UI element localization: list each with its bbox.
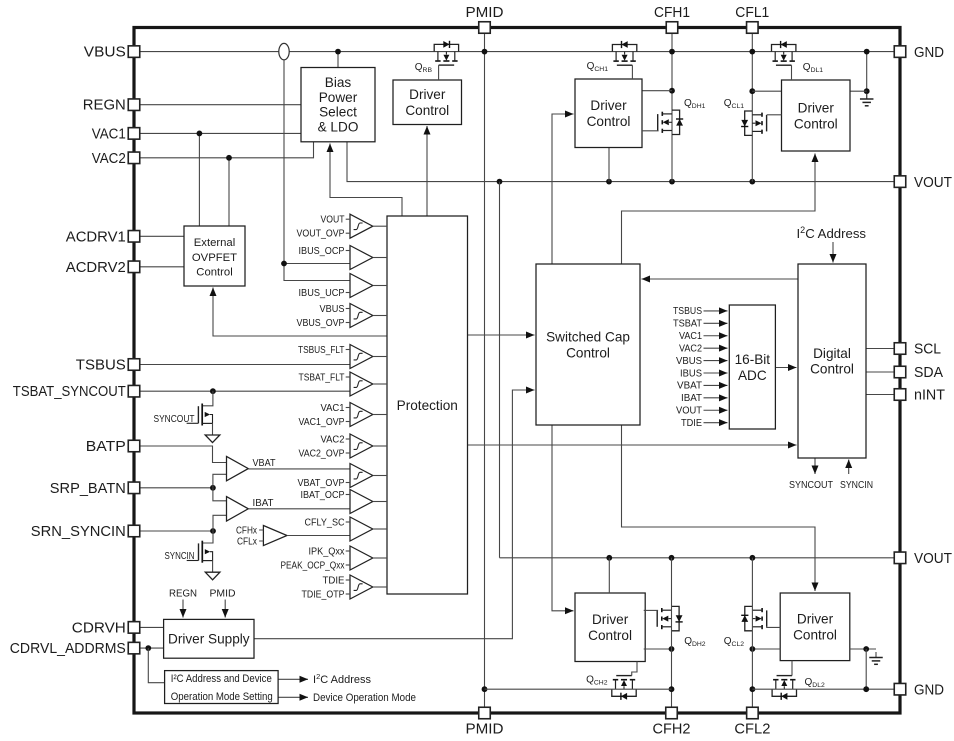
svg-text:IBUS_OCP: IBUS_OCP [299, 246, 345, 257]
junction VOUT rail2 / QCL2 [750, 555, 756, 561]
wire CFL1 line to driver control 1R left [752, 90, 781, 92]
svg-text:ACDRV1: ACDRV1 [66, 229, 126, 245]
comparator IBUS_OCP [350, 246, 373, 270]
wire driver control 1L bottom to VOUT rail [608, 148, 610, 182]
svg-text:ADC: ADC [738, 368, 767, 383]
svg-text:VAC2: VAC2 [92, 151, 126, 167]
junction VOUT rail2 / driver control 2L top [606, 555, 612, 561]
pin PMID top [479, 22, 491, 34]
comparator IBUS_UCP [350, 274, 373, 298]
pin VAC2 [128, 152, 140, 164]
wire Bias bottom to VOUT rail y182 [347, 142, 895, 182]
svg-text:VBUS_OVP: VBUS_OVP [297, 318, 345, 329]
pin VOUT right y557 [894, 552, 906, 564]
transistor QCL2 [745, 606, 753, 630]
junction GND bottom branch [863, 686, 869, 692]
wire VAC2 to Bias block bottom [140, 142, 314, 158]
wire IBAT amp output to IBAT_OCP comparator [248, 508, 350, 510]
block U2 Driver Control QRB [393, 80, 462, 125]
pin nINT right y394 [894, 389, 906, 401]
wire driver control 1L right to CFH1 line [642, 90, 672, 92]
block U8 16-Bit ADC [729, 305, 775, 429]
wire CDRVL to I2C Address block [148, 648, 164, 683]
junction VOUT rail2 / QDH2 [669, 555, 675, 561]
block U9 Digital Control [798, 264, 866, 458]
svg-text:I²C Address and Device: I²C Address and Device [171, 673, 272, 685]
wire I2C Address into Digital Control [832, 242, 834, 263]
junction VAC2 branch [226, 155, 232, 161]
svg-text:16-Bit: 16-Bit [735, 352, 771, 367]
wire CFL2 to GND through QDL2 [752, 688, 894, 690]
svg-text:BATP: BATP [86, 439, 126, 455]
comparator TDIE_OTP [350, 575, 373, 599]
current sense ellipse on VBUS [279, 43, 289, 59]
svg-text:Control: Control [587, 114, 631, 129]
wire I2C block to Device Operation Mode label [278, 696, 308, 698]
wire ADC input VAC2 [704, 347, 728, 349]
wire PMID top pin to PMID bottom pin vertical [484, 33, 486, 707]
junction SRP_BATN [210, 485, 216, 491]
svg-text:Driver: Driver [590, 98, 627, 113]
svg-text:CFLY_SC: CFLY_SC [305, 517, 345, 528]
wire VOUT bottom rail y558 [500, 557, 895, 559]
svg-text:Control: Control [196, 266, 232, 278]
svg-text:GND: GND [914, 45, 944, 61]
svg-text:CFHx: CFHx [236, 526, 257, 537]
svg-text:SYNCIN: SYNCIN [165, 551, 195, 562]
wire ADC input TDIE [704, 422, 728, 424]
wire SRN_SYNCIN to IBAT amp - [213, 515, 227, 531]
IC boundary frame [134, 28, 900, 714]
svg-text:VOUT: VOUT [914, 175, 952, 191]
wire GND branch to earth symbol [866, 52, 868, 99]
svg-text:TSBUS: TSBUS [76, 358, 126, 374]
junction VBUS-Bias [335, 49, 341, 55]
wire ADC input VBAT [704, 384, 728, 386]
junction CFH2 / driver 2L [669, 646, 675, 652]
junction VOUT rail / inter-rail vertical [497, 179, 503, 185]
svg-text:Control: Control [405, 103, 449, 118]
svg-text:Power: Power [319, 90, 358, 105]
svg-text:SYNCOUT: SYNCOUT [154, 414, 195, 425]
svg-text:Control: Control [588, 628, 632, 643]
wire VOUT rail2 to driver control 2L top [608, 558, 610, 593]
wire ACDRV2 to OVPFET block [140, 266, 185, 268]
svg-text:VOUT: VOUT [914, 551, 952, 567]
svg-text:GND: GND [914, 682, 944, 698]
svg-text:VAC2: VAC2 [321, 434, 345, 445]
svg-text:PEAK_OCP_Qxx: PEAK_OCP_Qxx [281, 560, 345, 571]
pin CFL1 top [747, 22, 759, 34]
transistor QCH2 [612, 689, 636, 696]
svg-text:VAC2: VAC2 [679, 343, 702, 354]
svg-text:VBUS: VBUS [320, 304, 346, 315]
svg-text:CDRVH: CDRVH [72, 620, 126, 636]
pin SRP_BATN [128, 482, 140, 494]
svg-text:TSBAT_SYNCOUT: TSBAT_SYNCOUT [13, 384, 126, 400]
svg-text:Control: Control [566, 345, 610, 360]
junction CFH2 / QCH2 wire [669, 686, 675, 692]
wire ADC input TSBAT [704, 322, 728, 324]
transistor QDL2 [772, 689, 796, 696]
wire Protection to Digital Control with arrow [468, 444, 797, 446]
svg-text:TDIE: TDIE [323, 575, 346, 586]
transistor QDH2 [672, 606, 680, 630]
wire ADC input IBAT [704, 397, 728, 399]
wire VAC2 branch to External OVPFET Control [228, 158, 230, 226]
junction GND branch [864, 49, 870, 55]
svg-text:Driver Supply: Driver Supply [168, 632, 250, 647]
svg-text:TDIE_OTP: TDIE_OTP [302, 589, 345, 600]
transistor QDL1 [772, 45, 796, 52]
svg-text:IBUS: IBUS [680, 368, 703, 379]
wire SRP_BATN [140, 487, 213, 489]
svg-text:CFL1: CFL1 [735, 5, 769, 21]
pin VBUS [128, 46, 140, 58]
wire Digital Control to SCL pin [866, 348, 895, 350]
svg-text:CFLx: CFLx [237, 537, 257, 548]
svg-text:I2C Address: I2C Address [797, 225, 867, 241]
svg-text:CDRVL_ADDRMS: CDRVL_ADDRMS [10, 641, 126, 657]
pin CDRVL_ADDRMS [128, 642, 140, 654]
wire ADC input TSBUS [704, 310, 728, 312]
wire PMID into Driver Supply [224, 600, 226, 618]
pin REGN [128, 99, 140, 111]
wire Switched Cap Control to driver control 2R with arrow [622, 425, 816, 591]
svg-text:PMID: PMID [466, 5, 504, 21]
junction PMID / top rail [482, 49, 488, 55]
comparator VBAT_OVP [350, 464, 373, 488]
wire CFHx comparator output to CFLY_SC comparator [287, 535, 350, 537]
svg-text:TSBUS: TSBUS [673, 306, 702, 317]
comparator IPK/PEAK_OCP_Qxx [350, 546, 373, 570]
ground earth symbol bottom right [875, 652, 877, 658]
wire Protection to Switched Cap Control with arrow [468, 334, 535, 336]
block U11 Driver Control QCL2/QDL2 [780, 593, 850, 661]
wire CDRVH to Driver Supply [140, 626, 164, 628]
svg-text:Driver: Driver [797, 612, 834, 627]
wire Digital Control to SDA pin [866, 371, 895, 373]
wire Protection top to Bias bottom with arrow [330, 144, 402, 217]
svg-text:Protection: Protection [397, 398, 458, 413]
junction driver control 1R right port [864, 88, 870, 94]
wire VOUT rail top to bottom rail vertical [499, 182, 501, 558]
svg-text:REGN: REGN [169, 589, 197, 600]
transistor SYNCIN with ground [202, 531, 213, 544]
pin ACDRV2 [128, 261, 140, 273]
wire driver control 1R to GND branch [850, 90, 867, 92]
junction ground vertical bottom [863, 646, 869, 652]
svg-text:SYNCIN: SYNCIN [840, 480, 873, 491]
svg-text:VOUT_OVP: VOUT_OVP [297, 229, 345, 240]
comparator CFHx CFLx [263, 526, 287, 546]
junction VAC1 branch [197, 131, 203, 137]
svg-text:nINT: nINT [914, 388, 945, 404]
wire CDRVL_ADDRMS to Driver Supply [140, 647, 164, 649]
wire REGN to Bias block [140, 104, 302, 106]
svg-text:PMID: PMID [466, 722, 504, 738]
comparator VAC2_OVP [350, 434, 373, 458]
wire TSBAT_SYNCOUT to TSBAT_FLT comparator [140, 390, 351, 392]
svg-text:VBAT: VBAT [253, 458, 276, 469]
wire Protection to External OVPFET Control with arrow [213, 288, 387, 337]
svg-text:TSBAT_FLT: TSBAT_FLT [299, 372, 345, 383]
junction CFH1 / top rail [669, 49, 675, 55]
wire CFL2 line to driver control 2R [752, 648, 780, 650]
svg-text:VAC1: VAC1 [321, 403, 345, 414]
block U6 Protection [387, 216, 468, 594]
pin SDA right y372 [894, 366, 906, 378]
svg-text:Driver: Driver [409, 87, 446, 102]
comparator VAC1_OVP [350, 403, 373, 427]
svg-text:VBUS: VBUS [84, 45, 126, 61]
junction CFL2 / driver 2R [750, 646, 756, 652]
block U10 Driver Control QCH2/QDH2 [575, 593, 645, 662]
svg-text:SYNCOUT: SYNCOUT [789, 480, 833, 491]
wire Digital Control to Switched Cap Control with arrow [642, 278, 799, 280]
pin ACDRV1 [128, 231, 140, 243]
svg-text:Switched Cap: Switched Cap [546, 329, 630, 344]
wire I2C block to I2C Address label [278, 678, 308, 680]
wire ground vertical to GND rail bottom [865, 649, 867, 689]
svg-text:Control: Control [810, 362, 854, 377]
wire driver control 2R to ground stub [850, 648, 876, 650]
svg-text:CFH2: CFH2 [653, 722, 691, 738]
wire ADC input VAC1 [704, 335, 728, 337]
svg-text:VAC1: VAC1 [679, 331, 702, 342]
svg-text:CFL2: CFL2 [734, 722, 770, 738]
junction VOUT rail / QCL1 [749, 179, 755, 185]
pin CDRVH [128, 622, 140, 634]
svg-text:IBAT_OCP: IBAT_OCP [301, 490, 345, 501]
wire CFL2 pin vertical [751, 558, 753, 708]
wire SRN_SYNCIN [140, 530, 214, 532]
svg-text:VOUT: VOUT [321, 215, 345, 226]
wire ADC to Digital Control with arrow [775, 367, 796, 369]
pin GND right y51 [894, 46, 906, 58]
junction CDRVL branch [145, 645, 151, 651]
svg-text:REGN: REGN [83, 98, 126, 114]
svg-text:Control: Control [793, 628, 837, 643]
wire VBUS to GND top rail [140, 51, 895, 53]
block U5 External OVPFET Control [184, 226, 245, 286]
wire CFH2 pin vertical [671, 558, 673, 708]
comparator CFLY_SC [350, 517, 373, 541]
svg-text:SDA: SDA [914, 365, 943, 381]
block U7 Switched Cap Control [536, 264, 640, 425]
comparator VBUS_OVP [350, 304, 373, 328]
pin BATP [128, 440, 140, 452]
svg-text:Operation Mode Setting: Operation Mode Setting [171, 691, 273, 703]
svg-text:Control: Control [794, 116, 838, 131]
svg-text:VAC1_OVP: VAC1_OVP [299, 417, 345, 428]
wire ACDRV1 to OVPFET block [140, 235, 185, 237]
wire Protection top to QRB Driver Control with arrow [426, 126, 428, 216]
svg-text:SRN_SYNCIN: SRN_SYNCIN [31, 524, 126, 540]
pin SCL right y348 [894, 343, 906, 355]
pin CFH2 bottom [666, 707, 678, 719]
wire TSBUS to TSBUS_FLT comparator [140, 364, 351, 366]
wire driver control 2L to CFH2 line [644, 648, 672, 650]
svg-text:PMID: PMID [210, 589, 236, 600]
ground earth symbol top right [866, 94, 868, 100]
transistor QDH1 [672, 110, 680, 134]
svg-text:& LDO: & LDO [318, 119, 359, 134]
svg-text:IPK_Qxx: IPK_Qxx [309, 546, 345, 557]
wire IBUS sense vertical to IBUS_UCP comparator [284, 58, 350, 281]
wire Switched Cap Control to driver control 2L with arrow [552, 425, 574, 611]
wire VBUS to Bias Power Select top [337, 52, 339, 68]
comparator VOUT/VOUT_OVP [350, 214, 373, 238]
transistor QCH1 [612, 45, 636, 52]
svg-text:TDIE: TDIE [681, 418, 703, 429]
svg-text:TSBAT: TSBAT [673, 319, 702, 330]
svg-text:Device Operation Mode: Device Operation Mode [313, 692, 416, 704]
svg-text:SRP_BATN: SRP_BATN [50, 481, 126, 497]
wire PMID to CFH2 through QCH2 [485, 688, 672, 690]
junction PMID / QCH2 wire [482, 686, 488, 692]
junction IBUS sense [281, 261, 287, 267]
svg-text:OVPFET: OVPFET [192, 252, 237, 264]
junction VOUT rail / QDH1 [669, 179, 675, 185]
wire VBAT amp output to VBAT_OVP comparator [248, 468, 350, 470]
transistor SYNCOUT with ground [202, 391, 213, 406]
op-amp IBAT sense [227, 497, 249, 521]
svg-text:VAC1: VAC1 [92, 126, 126, 142]
wire CFL1 pin down to VOUT rail [751, 33, 753, 181]
wire Switched Cap Control to driver control 1R with arrow [622, 154, 816, 265]
svg-text:ACDRV2: ACDRV2 [66, 260, 126, 276]
svg-text:Driver: Driver [798, 100, 835, 115]
wire Digital Control to nINT pin [866, 394, 895, 396]
junction TSBAT / SYNCOUT fet [210, 388, 216, 394]
block U1 Bias Power Select & LDO [301, 68, 375, 142]
wire SRP_BATN to IBAT amp + [213, 488, 227, 501]
svg-text:VAC2_OVP: VAC2_OVP [299, 448, 345, 459]
transistor QCL1 [745, 111, 753, 135]
junction CFL1 / top rail [749, 49, 755, 55]
svg-text:SCL: SCL [914, 342, 941, 358]
wire Switched Cap Control to driver control 1L with arrow [552, 114, 574, 264]
pin PMID bottom [479, 707, 491, 719]
pin TSBUS [128, 359, 140, 371]
block U4 Driver Control QDL1/QCL1 [782, 80, 851, 151]
pin VAC1 [128, 128, 140, 139]
comparator TSBUS_FLT [350, 345, 373, 369]
wire REGN into Driver Supply [182, 600, 184, 618]
wire SYNCIN into Digital Control [848, 460, 850, 475]
svg-text:CFH1: CFH1 [654, 5, 690, 21]
wire Driver Supply to Switched Cap Control with arrow [254, 390, 535, 639]
transistor QRB [434, 44, 458, 51]
svg-text:External: External [194, 237, 235, 249]
svg-text:Driver: Driver [592, 612, 629, 627]
wire ADC input VBUS [704, 360, 728, 362]
svg-text:Select: Select [319, 105, 357, 120]
junction CFL1 / driver control 1R [749, 88, 755, 94]
wire IBUS sense to IBUS_OCP comparator [284, 263, 350, 265]
wire VAC1 to Bias block [140, 132, 302, 134]
svg-text:IBAT: IBAT [681, 393, 702, 404]
junction CFL2 / QDL2 wire [750, 686, 756, 692]
svg-text:VOUT: VOUT [676, 406, 702, 417]
block U3 Driver Control QCH1/QDH1 [575, 79, 642, 148]
svg-text:Digital: Digital [813, 346, 851, 361]
pin VOUT right y181 [894, 176, 906, 188]
wire ADC input IBUS [704, 372, 728, 374]
pin GND right y689 [894, 683, 906, 695]
svg-text:IBAT: IBAT [253, 498, 274, 509]
comparator TSBAT_FLT [350, 372, 373, 396]
wire ADC input VOUT [704, 409, 728, 411]
comparator IBAT_OCP [350, 490, 373, 514]
pin CFL2 bottom [747, 707, 759, 719]
junction SRN_SYNCIN [210, 528, 216, 534]
pin CFH1 top [666, 22, 678, 34]
pin TSBAT_SYNCOUT [128, 385, 140, 397]
op-amp VBAT sense [227, 456, 249, 480]
wire CFH1 pin down to VOUT rail [671, 33, 673, 181]
svg-text:VBAT: VBAT [677, 381, 702, 392]
wire SRP_BATN to VBAT amp - [213, 474, 227, 488]
wire SYNCOUT out of Digital Control [814, 458, 816, 474]
block U12 Driver Supply [164, 619, 254, 658]
svg-text:VBAT_OVP: VBAT_OVP [298, 478, 345, 489]
svg-text:VBUS: VBUS [676, 356, 703, 367]
svg-text:I2C Address: I2C Address [313, 672, 371, 686]
svg-text:TSBUS_FLT: TSBUS_FLT [298, 345, 345, 356]
junction CFH1 / driver control 1L output [669, 88, 675, 94]
wire VAC1 branch to External OVPFET Control [198, 133, 200, 226]
svg-text:Bias: Bias [325, 75, 352, 90]
svg-text:IBUS_UCP: IBUS_UCP [299, 288, 345, 299]
wire BATP to VBAT amp + [140, 446, 227, 463]
junction VOUT rail / driver control 1L [606, 179, 612, 185]
block U13 I2C Address and Device Operation Mode Setting [165, 671, 279, 704]
pin SRN_SYNCIN [128, 525, 140, 537]
